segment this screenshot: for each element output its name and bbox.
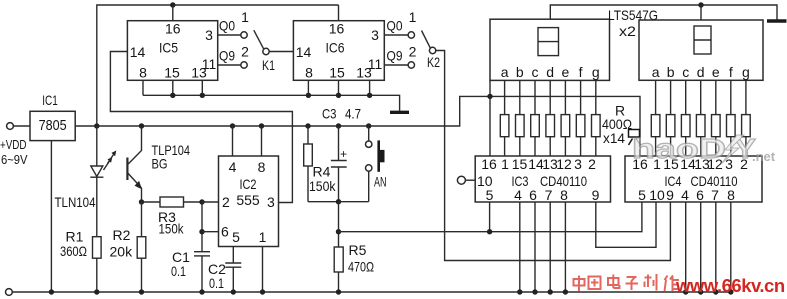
wire IC2 pin8 to VDD — [261, 126, 263, 156]
terminal ground input — [5, 289, 12, 296]
node bus IC5 pin13 — [200, 93, 205, 98]
wire IC6 pin15 stub — [338, 80, 340, 95]
svg-text:g: g — [592, 64, 600, 80]
svg-text:16: 16 — [481, 156, 497, 172]
svg-text:c: c — [682, 64, 689, 80]
glyph zhi2 — [645, 277, 652, 279]
wire display2 anode drop — [700, 5, 702, 20]
LED TLN104 — [90, 126, 116, 237]
wire pin2 stub — [202, 201, 219, 203]
wire ground bus under counters — [143, 95, 400, 111]
resistor R3 — [142, 197, 203, 237]
svg-text:b: b — [516, 64, 524, 80]
wire IC4 pin7 to ground — [715, 202, 717, 292]
svg-text:1: 1 — [501, 156, 509, 172]
IC1 7805 regulator — [30, 92, 75, 141]
wire IC3 pin7 to ground — [549, 202, 551, 292]
svg-text:8: 8 — [258, 159, 266, 175]
svg-text:1: 1 — [241, 9, 249, 25]
wire pin6 stub — [202, 231, 219, 233]
svg-text:2: 2 — [222, 194, 230, 210]
svg-text:5: 5 — [638, 187, 646, 203]
power bar terminal — [767, 19, 787, 22]
node gnd IC4 pin7 — [713, 289, 718, 294]
svg-text:K2: K2 — [427, 54, 440, 70]
svg-text:8: 8 — [560, 187, 568, 203]
svg-text:K1: K1 — [262, 57, 275, 73]
svg-text:f: f — [729, 64, 733, 80]
svg-text:IC5: IC5 — [159, 40, 178, 56]
svg-text:9: 9 — [666, 187, 674, 203]
node latch at IC3 pin5 — [487, 229, 492, 234]
svg-text:IC6: IC6 — [326, 40, 345, 56]
display DS2 LTS547G — [639, 20, 763, 80]
wire AN bottom to node — [339, 201, 369, 203]
svg-text:BG: BG — [152, 156, 168, 172]
svg-text:C3: C3 — [322, 106, 337, 122]
driver IC3 CD40110 — [475, 156, 610, 203]
node VDD to IC2 pin8 — [259, 123, 264, 128]
wire IC4 pin8 to ground — [730, 202, 732, 292]
resistor R2 — [110, 202, 146, 292]
node VDD to phototransistor — [139, 123, 144, 128]
wire VDD mid rail — [75, 96, 640, 156]
svg-text:a: a — [652, 64, 660, 80]
svg-text:4: 4 — [681, 187, 689, 203]
wire K2 to IC4 pin9 — [436, 51, 671, 261]
svg-text:16: 16 — [165, 21, 181, 37]
wire IC2 pin1 to ground — [262, 247, 264, 293]
svg-text:15: 15 — [512, 156, 528, 172]
svg-text:3: 3 — [267, 194, 275, 210]
counter IC5 — [127, 21, 217, 81]
terminal +VDD input — [7, 123, 14, 130]
node gnd IC4 pin8 — [728, 289, 733, 294]
wire bottom ground rail — [12, 291, 733, 293]
svg-text:20k: 20k — [110, 244, 134, 260]
node VDD to AN — [366, 123, 371, 128]
wire IC6 pin16 stub — [338, 5, 340, 21]
svg-text:13: 13 — [191, 65, 207, 81]
svg-text:3: 3 — [574, 156, 582, 172]
wire IC5 pin16 stub — [172, 5, 174, 21]
node bus IC6 pin13 — [367, 93, 372, 98]
svg-text:12: 12 — [556, 156, 572, 172]
svg-text:13: 13 — [356, 65, 372, 81]
wire IC6 pin13 stub — [369, 80, 371, 95]
node gnd IC4 pin4 — [683, 289, 688, 294]
svg-text:Q0: Q0 — [387, 18, 403, 34]
pushbutton AN — [366, 126, 387, 202]
glyph dian — [608, 278, 619, 285]
svg-text:1: 1 — [259, 229, 267, 245]
wire latch line to IC3 pin5 and IC4 pin5 — [339, 202, 642, 232]
node gnd R5 — [336, 289, 341, 294]
svg-text:4: 4 — [514, 187, 522, 203]
wire IC2 pin3 output to IC5 pin14 — [110, 52, 292, 203]
svg-text:1: 1 — [409, 9, 417, 25]
svg-text:d: d — [546, 64, 554, 80]
contact Q9 of K1 — [241, 62, 247, 68]
node gnd IC3 pin7 — [548, 289, 553, 294]
node VDD to C3 — [336, 123, 341, 128]
wire IC3 pin9 carry to IC4 pin10 — [596, 202, 656, 247]
watermark haoDY.net — [632, 133, 776, 164]
node R3 to IC2 pin2 — [199, 199, 204, 204]
node bus IC5 pin15 — [170, 93, 175, 98]
svg-text:360Ω: 360Ω — [60, 243, 87, 259]
pin IC3 pin10 open terminal — [457, 176, 465, 184]
wire top VDD rail left — [97, 5, 339, 126]
node gnd IC3 pin4 — [517, 289, 522, 294]
wire IC5 pin8 stub — [142, 80, 144, 95]
wire IC3 pin8 to ground — [564, 202, 566, 292]
node VDD to IC3 pin16 — [487, 94, 492, 99]
contact Q0 of K1 — [241, 32, 247, 38]
svg-text:470Ω: 470Ω — [348, 259, 374, 275]
ground symbol — [390, 111, 409, 114]
svg-text:3: 3 — [205, 27, 213, 43]
svg-text:8: 8 — [139, 65, 147, 81]
svg-text:IC2: IC2 — [240, 176, 257, 192]
contact Q9 of K2 — [408, 62, 414, 68]
svg-text:8: 8 — [305, 65, 313, 81]
svg-text:TLN104: TLN104 — [55, 194, 96, 210]
svg-text:150k: 150k — [309, 178, 336, 194]
node gnd C2 — [231, 289, 236, 294]
svg-text:7805: 7805 — [39, 117, 67, 134]
svg-text:d: d — [697, 64, 705, 80]
node rail to display2 — [698, 2, 703, 7]
phototransistor BG TLP104 — [127, 126, 141, 202]
node top rail to IC5 pin16 — [170, 2, 175, 7]
node gnd IC4 pin6 — [698, 289, 703, 294]
svg-text:g: g — [742, 64, 750, 80]
svg-text:Q9: Q9 — [219, 48, 235, 64]
wire IC5 Q9 stub — [218, 64, 241, 66]
svg-text:R5: R5 — [349, 242, 367, 258]
svg-text:AN: AN — [374, 174, 387, 190]
segment resistor array R 400ohm x14 display1 — [500, 80, 600, 156]
svg-text:Q0: Q0 — [219, 18, 235, 34]
svg-text:haoD: haoD — [632, 133, 726, 164]
driver IC4 CD40110 — [625, 156, 762, 203]
svg-text:+VDD: +VDD — [0, 137, 27, 152]
node VDD to R4 — [305, 123, 310, 128]
wire K1 to IC6 pin14 — [269, 51, 293, 53]
resistor R1 — [60, 229, 101, 293]
op IC2 555 timer — [219, 156, 279, 247]
wire IC6 Q9 stub — [384, 64, 408, 66]
svg-text:2: 2 — [409, 44, 417, 60]
counter IC6 — [293, 21, 384, 81]
capacitor C1 — [171, 249, 210, 292]
node C3/R4/AN junction — [336, 199, 341, 204]
capacitor C2 — [208, 247, 241, 293]
display DS1 LTS547G — [490, 19, 610, 80]
resistor R5 — [334, 242, 374, 292]
wire IC3 pin4 to ground — [519, 202, 521, 292]
capacitor C3 electrolytic — [322, 106, 361, 202]
svg-text:x14: x14 — [603, 130, 625, 146]
wire 7805 ground pin — [50, 141, 52, 292]
glyph zhi (pieces) — [629, 130, 641, 146]
wire IC4 pin6 to ground — [700, 202, 702, 292]
glyph zi — [627, 276, 637, 278]
node bus IC6 pin8 — [306, 93, 311, 98]
svg-text:f: f — [579, 64, 583, 80]
svg-text:2: 2 — [241, 44, 249, 60]
wire IC5 Q0 stub — [218, 34, 241, 36]
svg-text:e: e — [712, 64, 720, 80]
svg-text:c: c — [532, 64, 539, 80]
wire display1 anode / IC3 pin16 drop — [489, 80, 491, 156]
svg-text:x2: x2 — [619, 23, 636, 39]
glyph guo — [589, 277, 601, 290]
wire pin2 to pin6 to C1 — [201, 202, 203, 252]
node gnd R1 — [94, 289, 99, 294]
node gnd 7805 — [49, 289, 54, 294]
node VDD to IC2 pin4 — [230, 123, 235, 128]
svg-text:b: b — [667, 64, 675, 80]
segment resistor array display2 — [651, 80, 750, 156]
svg-text:3: 3 — [371, 27, 379, 43]
node gnd C1 — [199, 289, 204, 294]
wire IC6 Q0 stub — [384, 34, 408, 36]
svg-text:7: 7 — [711, 187, 719, 203]
svg-text:7: 7 — [545, 187, 553, 203]
svg-text:15: 15 — [329, 65, 345, 81]
svg-text:6: 6 — [529, 187, 537, 203]
node emitter junction — [139, 199, 144, 204]
svg-text:2: 2 — [588, 156, 596, 172]
wire IC2 pin4 to VDD — [232, 126, 234, 156]
wire IC3 pin6 to ground — [534, 202, 536, 292]
svg-text:4: 4 — [229, 159, 237, 175]
switch K1 — [254, 30, 275, 73]
node gnd IC2 pin1 — [260, 289, 265, 294]
svg-text:14: 14 — [296, 44, 312, 60]
svg-text:5: 5 — [232, 229, 240, 245]
wire node down to R5 top — [338, 202, 340, 247]
svg-text:6: 6 — [696, 187, 704, 203]
svg-text:e: e — [562, 64, 570, 80]
svg-text:4.7: 4.7 — [345, 106, 361, 122]
svg-text:+: + — [340, 147, 347, 161]
svg-text:16: 16 — [329, 21, 345, 37]
svg-text:IC1: IC1 — [42, 92, 58, 108]
svg-text:150k: 150k — [159, 221, 185, 237]
node gnd IC3 pin6 — [532, 289, 537, 294]
node gnd R2 — [139, 289, 144, 294]
switch K2 — [422, 31, 441, 71]
watermark red site text — [574, 274, 680, 292]
glyph zuo — [665, 276, 668, 281]
svg-text:0.1: 0.1 — [171, 263, 186, 279]
glyph zhong — [574, 279, 585, 286]
svg-text:6~9V: 6~9V — [1, 152, 28, 167]
contact Q0 of K2 — [408, 32, 414, 38]
node VDD rail junction at 7805 output — [94, 123, 99, 128]
svg-text:9: 9 — [592, 187, 600, 203]
svg-text:.net: .net — [752, 149, 776, 164]
node pin6 junction — [199, 229, 204, 234]
wire IC4 pin4 to ground — [685, 202, 687, 292]
wire IC3 pin5 drop — [489, 202, 491, 232]
svg-text:0.1: 0.1 — [209, 275, 224, 291]
svg-text:10: 10 — [649, 187, 665, 203]
svg-text:5: 5 — [486, 187, 494, 203]
node bus IC6 pin15 — [336, 93, 341, 98]
resistor R4 — [304, 126, 339, 202]
svg-text:555: 555 — [236, 192, 260, 208]
node gnd IC3 pin8 — [563, 289, 568, 294]
svg-text:Q9: Q9 — [387, 48, 403, 64]
wire top VDD rail right — [550, 5, 777, 20]
svg-text:8: 8 — [727, 187, 735, 203]
svg-text:6: 6 — [221, 224, 229, 240]
svg-text:14: 14 — [130, 44, 146, 60]
wire IC6 pin8 stub — [307, 80, 309, 95]
svg-text:www.66kv.cn: www.66kv.cn — [675, 275, 785, 296]
wire IC5 pin15 stub — [172, 80, 174, 95]
node R5 top / latch line — [336, 229, 341, 234]
svg-text:15: 15 — [164, 65, 180, 81]
svg-text:R2: R2 — [113, 227, 131, 243]
svg-text:a: a — [501, 64, 509, 80]
wire IC5 pin13 stub — [201, 80, 203, 95]
